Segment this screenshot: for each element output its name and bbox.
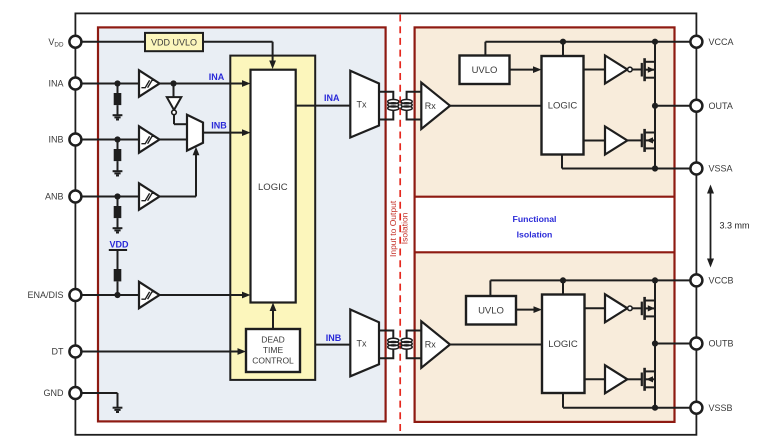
wire logic B to VSSB xyxy=(562,393,564,408)
junction INA pulldown xyxy=(114,80,120,86)
block LOGIC A xyxy=(542,56,584,155)
resistor INA pulldown with ground xyxy=(117,84,119,106)
transistor A high-side PMOS xyxy=(641,63,643,77)
buffer A high-side (inverting) xyxy=(605,56,627,84)
wire buffer to high-side gate xyxy=(632,307,642,309)
pin GND xyxy=(69,387,81,399)
wire INB buffer to mux xyxy=(160,139,188,141)
wire Rx B to logic B xyxy=(450,344,542,346)
wire VDD UVLO to logic top xyxy=(203,41,273,43)
junction OUTA xyxy=(652,103,658,109)
block UVLO A xyxy=(460,56,510,85)
wire INA input xyxy=(75,83,139,85)
svg-text:LOGIC: LOGIC xyxy=(548,339,578,350)
junction VCCA xyxy=(652,39,658,45)
wire logic A to VSSA xyxy=(561,155,563,169)
svg-text:DT: DT xyxy=(52,347,64,357)
junction OUTB xyxy=(652,340,658,346)
block UVLO B xyxy=(466,296,516,325)
wire mux to logic INB xyxy=(203,132,244,134)
buffer B high-side (inverting) xyxy=(605,294,627,322)
svg-text:Functional: Functional xyxy=(513,214,557,224)
wire dead time control to Tx B xyxy=(315,344,350,346)
svg-text:Rx: Rx xyxy=(425,340,436,350)
svg-text:VCCA: VCCA xyxy=(709,37,734,47)
junction INA to inverter xyxy=(170,80,176,86)
wire OUTA to pin xyxy=(655,105,696,107)
svg-text:VCCB: VCCB xyxy=(709,276,734,286)
transmitter Tx B xyxy=(350,310,379,377)
svg-text:TIME: TIME xyxy=(263,345,284,355)
mux input select xyxy=(187,115,203,151)
buffer ANB schmitt xyxy=(139,183,160,209)
junction VCCB xyxy=(652,277,658,283)
svg-text:VDD: VDD xyxy=(109,239,129,249)
pin VCCA xyxy=(690,36,702,48)
wire logic B to low-side buffer xyxy=(585,378,606,380)
resistor ENA/DIS pullup xyxy=(114,269,122,281)
ground GND pin xyxy=(113,407,123,409)
transformer A primary xyxy=(379,92,393,120)
junction ENA/DIS pullup xyxy=(114,292,120,298)
pin DT xyxy=(69,346,81,358)
input-side region (left, primary) xyxy=(98,27,386,421)
transistor B high-side PMOS xyxy=(641,302,643,316)
wire INA buffer to logic xyxy=(160,83,245,85)
pin ENA/DIS xyxy=(69,289,81,301)
svg-text:ENA/DIS: ENA/DIS xyxy=(27,290,63,300)
transformer A secondary xyxy=(407,92,422,120)
transformer B primary xyxy=(379,331,393,359)
transistor B low-side NMOS xyxy=(641,373,643,387)
wire buffer to high-side gate xyxy=(632,69,642,71)
junction ANB pulldown xyxy=(114,193,120,199)
buffer A low-side xyxy=(605,127,627,155)
transistor A low-side NMOS xyxy=(641,134,643,148)
junction VSSA xyxy=(652,165,658,171)
wire logic to Tx A xyxy=(296,105,351,107)
wire output stage A rail xyxy=(654,42,656,169)
wire ANB buffer to mux select xyxy=(160,196,197,198)
pin VDD xyxy=(69,36,81,48)
svg-text:INB: INB xyxy=(326,333,342,343)
receiver Rx B xyxy=(421,321,450,368)
svg-text:Tx: Tx xyxy=(357,100,367,110)
pin OUTA xyxy=(690,100,702,112)
pin VCCB xyxy=(690,274,702,286)
svg-text:VSSB: VSSB xyxy=(709,403,733,413)
wire logic A to high-side buffer xyxy=(584,69,606,71)
wire ENA/DIS input xyxy=(75,294,139,296)
wire logic B to high-side buffer xyxy=(585,307,606,309)
output-side region (right, secondary) xyxy=(415,27,675,422)
svg-text:INA: INA xyxy=(324,93,340,103)
svg-text:LOGIC: LOGIC xyxy=(548,101,578,112)
block LOGIC (input side) xyxy=(251,70,296,303)
wire DT input xyxy=(75,351,239,353)
svg-text:VSSA: VSSA xyxy=(709,164,733,174)
block LOGIC B xyxy=(542,295,585,394)
block DEAD TIME CONTROL xyxy=(246,329,300,372)
junction VSSB xyxy=(652,405,658,411)
wire UVLO B to logic B xyxy=(516,309,536,311)
svg-text:UVLO: UVLO xyxy=(472,65,498,76)
svg-text:LOGIC: LOGIC xyxy=(258,182,288,193)
wire Rx A to logic A xyxy=(450,105,542,107)
svg-text:INB: INB xyxy=(48,135,63,145)
svg-text:Isolation: Isolation xyxy=(400,212,410,244)
wire GND input xyxy=(75,392,117,394)
functional isolation band xyxy=(416,198,674,251)
wire VDD pin to VDD UVLO xyxy=(75,41,145,43)
wire ANB input xyxy=(75,196,139,198)
pin VSSB xyxy=(690,402,702,414)
buffer ENA/DIS schmitt xyxy=(139,282,160,308)
buffer B low-side xyxy=(605,365,627,393)
svg-text:GND: GND xyxy=(44,388,65,398)
wire logic A to low-side buffer xyxy=(584,140,606,142)
pin OUTB xyxy=(690,338,702,350)
svg-text:OUTA: OUTA xyxy=(709,101,733,111)
wire output stage B rail xyxy=(654,280,656,407)
block VDD UVLO xyxy=(145,33,203,51)
resistor INB pulldown with ground xyxy=(117,140,119,162)
pin INB xyxy=(69,134,81,146)
resistor ANB pulldown with ground xyxy=(117,197,119,219)
svg-text:Input to Output: Input to Output xyxy=(388,200,398,257)
junction rail to logic A xyxy=(560,39,566,45)
junction INB pulldown xyxy=(114,136,120,142)
dimension arrow 3.3 mm xyxy=(710,191,712,261)
svg-text:INB: INB xyxy=(211,121,227,131)
wire VCCA rail xyxy=(485,41,696,43)
buffer INB schmitt xyxy=(139,126,160,152)
transformer B secondary xyxy=(407,331,422,359)
svg-text:INA: INA xyxy=(209,72,225,82)
wire buffer to low-side gate xyxy=(627,378,642,380)
junction rail to logic B xyxy=(560,277,566,283)
svg-text:3.3 mm: 3.3 mm xyxy=(720,221,750,231)
logic surround (yellow) xyxy=(230,56,315,380)
wire buffer to low-side gate xyxy=(627,139,642,141)
svg-text:INA: INA xyxy=(48,79,63,89)
svg-text:DEAD: DEAD xyxy=(261,335,285,345)
svg-text:Tx: Tx xyxy=(357,339,367,349)
svg-text:UVLO: UVLO xyxy=(478,306,504,317)
svg-text:CONTROL: CONTROL xyxy=(252,356,294,366)
svg-text:ANB: ANB xyxy=(45,192,64,202)
wire ENA/DIS buffer to logic xyxy=(160,294,245,296)
pin INA xyxy=(69,78,81,90)
wire UVLO A to logic A xyxy=(510,69,536,71)
buffer INA schmitt xyxy=(139,70,160,96)
wire OUTB to pin xyxy=(655,343,696,345)
isolation barrier dashed line xyxy=(399,15,401,434)
wire VCCB rail xyxy=(490,279,696,281)
IC outline (device boundary) xyxy=(75,13,696,434)
svg-text:Rx: Rx xyxy=(425,101,436,111)
pin VSSA xyxy=(690,163,702,175)
svg-text:VDD UVLO: VDD UVLO xyxy=(151,37,197,47)
wire dead time control to logic xyxy=(272,309,274,329)
svg-text:OUTB: OUTB xyxy=(709,339,734,349)
wire inverter to mux xyxy=(173,115,175,125)
pin ANB xyxy=(69,191,81,203)
receiver Rx A xyxy=(421,83,450,130)
transmitter Tx A xyxy=(350,71,379,138)
wire INB input xyxy=(75,139,139,141)
inverter INA to mux xyxy=(173,84,175,98)
svg-text:Isolation: Isolation xyxy=(517,229,553,239)
